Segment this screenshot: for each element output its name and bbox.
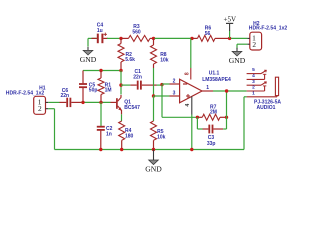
- wire base rail: [81, 101, 111, 103]
- wire feedback across: [162, 116, 197, 118]
- resistor R4 180 (vertical): [119, 121, 125, 140]
- capacitor C4 (1u, polarized): [97, 34, 99, 44]
- wire feedback down: [161, 85, 163, 118]
- svg-text:1u: 1u: [97, 28, 103, 34]
- svg-text:8: 8: [184, 72, 190, 75]
- svg-text:2: 2: [38, 104, 42, 113]
- wire divider mid: [153, 68, 155, 96]
- svg-text:LM358APE4: LM358APE4: [202, 77, 231, 83]
- node noninv bias: [152, 94, 155, 97]
- svg-text:10k: 10k: [160, 58, 169, 64]
- svg-text:HDR-F-2.54_1x2: HDR-F-2.54_1x2: [249, 25, 288, 31]
- wire ground rail: [55, 149, 245, 151]
- svg-text:AUDIO1: AUDIO1: [257, 105, 276, 111]
- wire H2 pin2 to gnd: [237, 43, 247, 45]
- resistor R5 10k (vertical): [151, 121, 157, 140]
- resistor R1 1M (vertical): [100, 71, 102, 79]
- wire output: [213, 90, 247, 92]
- node rail R4: [120, 148, 123, 151]
- svg-text:5: 5: [252, 67, 255, 73]
- ground G3 (below rail): [153, 150, 155, 157]
- wire emitter drop: [121, 114, 123, 121]
- svg-text:+5V: +5V: [224, 16, 237, 24]
- svg-text:2M: 2M: [210, 109, 217, 115]
- svg-text:GND: GND: [229, 56, 246, 65]
- capacitor C3 33p: [203, 128, 209, 130]
- resistor R8 10k (vertical): [153, 38, 155, 45]
- ground G2 (near H2): [236, 48, 238, 53]
- node coll-rail R1 top: [99, 69, 102, 72]
- wire C4 to node: [107, 37, 120, 39]
- node rail R5: [152, 148, 155, 151]
- wire C3 branch right: [223, 128, 226, 130]
- wire pin4 to gnd rail: [191, 115, 193, 150]
- node fb left: [196, 116, 199, 119]
- resistor R6 56 (horizontal): [193, 37, 198, 39]
- op-amp pin 8 (V+): [190, 38, 192, 68]
- H2 pin 1: [247, 37, 250, 39]
- wire jack pin1 to gnd rail: [244, 96, 247, 98]
- H1 pin 1: [46, 101, 49, 103]
- op-amp pin 4 (V-): [191, 96, 193, 114]
- audio jack AUDIO1 pin 1: [247, 96, 277, 98]
- node base-2 (R1/C2): [99, 101, 102, 104]
- wire top rail mid: [155, 37, 192, 39]
- svg-text:2: 2: [252, 85, 255, 91]
- svg-text:2: 2: [173, 78, 176, 84]
- svg-text:56: 56: [205, 31, 211, 37]
- ground G1 (near C4): [87, 47, 89, 52]
- wire pin3 feed: [154, 95, 170, 97]
- svg-text:10k: 10k: [157, 135, 166, 141]
- op-amp pin 1 (out): [202, 90, 213, 92]
- power +5V flag: [229, 31, 231, 39]
- op-amp pin 3 (non-inv): [170, 95, 180, 97]
- audio jack AUDIO1 pin 4: [247, 78, 265, 80]
- svg-text:33p: 33p: [207, 141, 216, 147]
- node inv input: [160, 83, 163, 86]
- svg-text:4: 4: [185, 104, 191, 107]
- svg-text:22n: 22n: [133, 74, 142, 80]
- audio jack AUDIO1 pin 2: [247, 90, 265, 92]
- node rail opamp V-: [190, 148, 193, 151]
- svg-text:GND: GND: [145, 164, 162, 173]
- wire collector rail: [83, 70, 121, 72]
- node rail C2: [99, 148, 102, 151]
- wire GND riser to C4 left: [87, 38, 89, 46]
- audio jack AUDIO1 pin 5: [247, 73, 261, 75]
- svg-text:4: 4: [252, 73, 255, 79]
- svg-text:HDR-F-2.54_1x2: HDR-F-2.54_1x2: [6, 91, 45, 97]
- wire C4 left stub: [88, 37, 97, 39]
- audio jack sleeve: [275, 77, 278, 95]
- svg-text:3: 3: [252, 79, 255, 85]
- resistor R7 2M (horizontal): [198, 116, 202, 118]
- svg-text:1n: 1n: [106, 131, 112, 137]
- wire H1 pin2 drop: [48, 108, 54, 110]
- svg-text:3: 3: [173, 90, 176, 96]
- audio jack AUDIO1 pin 3: [247, 84, 261, 86]
- node top-4 (+5V tap): [228, 37, 231, 40]
- svg-text:GND: GND: [80, 55, 97, 64]
- svg-text:50p: 50p: [89, 88, 98, 94]
- svg-text:1M: 1M: [105, 88, 112, 94]
- svg-text:BC547: BC547: [124, 105, 140, 111]
- node top-3 (opamp V+ tap): [190, 37, 193, 40]
- wire H1 pin1 to C6: [48, 101, 59, 103]
- svg-text:1: 1: [252, 90, 255, 96]
- node output: [225, 89, 228, 92]
- wire base to C2: [100, 102, 102, 126]
- capacitor C2 1n: [97, 126, 105, 128]
- node base-1 (C5 bottom): [81, 101, 84, 104]
- svg-text:2: 2: [252, 40, 256, 49]
- wire +5V to H2 pin1: [231, 37, 247, 39]
- resistor R3 560 (horizontal): [122, 37, 129, 39]
- op-amp U1.1 LM358APE4 triangle: [180, 79, 202, 103]
- node top-2 (R3/R8): [152, 37, 155, 40]
- svg-text:560: 560: [132, 29, 141, 35]
- resistor R2 5.6k (vertical): [120, 38, 122, 43]
- wire fb up to output: [226, 91, 228, 117]
- transistor Q1 BC547: [111, 101, 117, 103]
- capacitor C1 22n: [121, 84, 130, 86]
- wire pin2 stub: [162, 83, 170, 85]
- svg-text:180: 180: [125, 133, 134, 139]
- node fb right: [225, 116, 228, 119]
- svg-text:U1.1: U1.1: [209, 71, 220, 77]
- capacitor C5 50p: [82, 71, 84, 84]
- node top-1 (C4/R3/R2): [119, 37, 122, 40]
- capacitor C6 22n: [60, 101, 67, 103]
- op-amp pin 2 (inv): [170, 83, 180, 85]
- node coll-rail R2 bottom: [119, 69, 122, 72]
- svg-text:22n: 22n: [60, 93, 69, 99]
- H2 pin 2: [247, 43, 250, 45]
- node collector C1 tap: [119, 83, 122, 86]
- H1 pin 2: [46, 108, 49, 110]
- header H2 box: [250, 32, 262, 50]
- svg-text:5.6k: 5.6k: [125, 57, 135, 63]
- wire C3 branch left: [196, 117, 198, 129]
- svg-text:1: 1: [206, 85, 209, 91]
- wire divider to R5: [153, 96, 155, 121]
- header H1 box: [34, 96, 46, 114]
- wire C1 to inv node: [157, 84, 162, 86]
- wire collector drop: [120, 71, 122, 95]
